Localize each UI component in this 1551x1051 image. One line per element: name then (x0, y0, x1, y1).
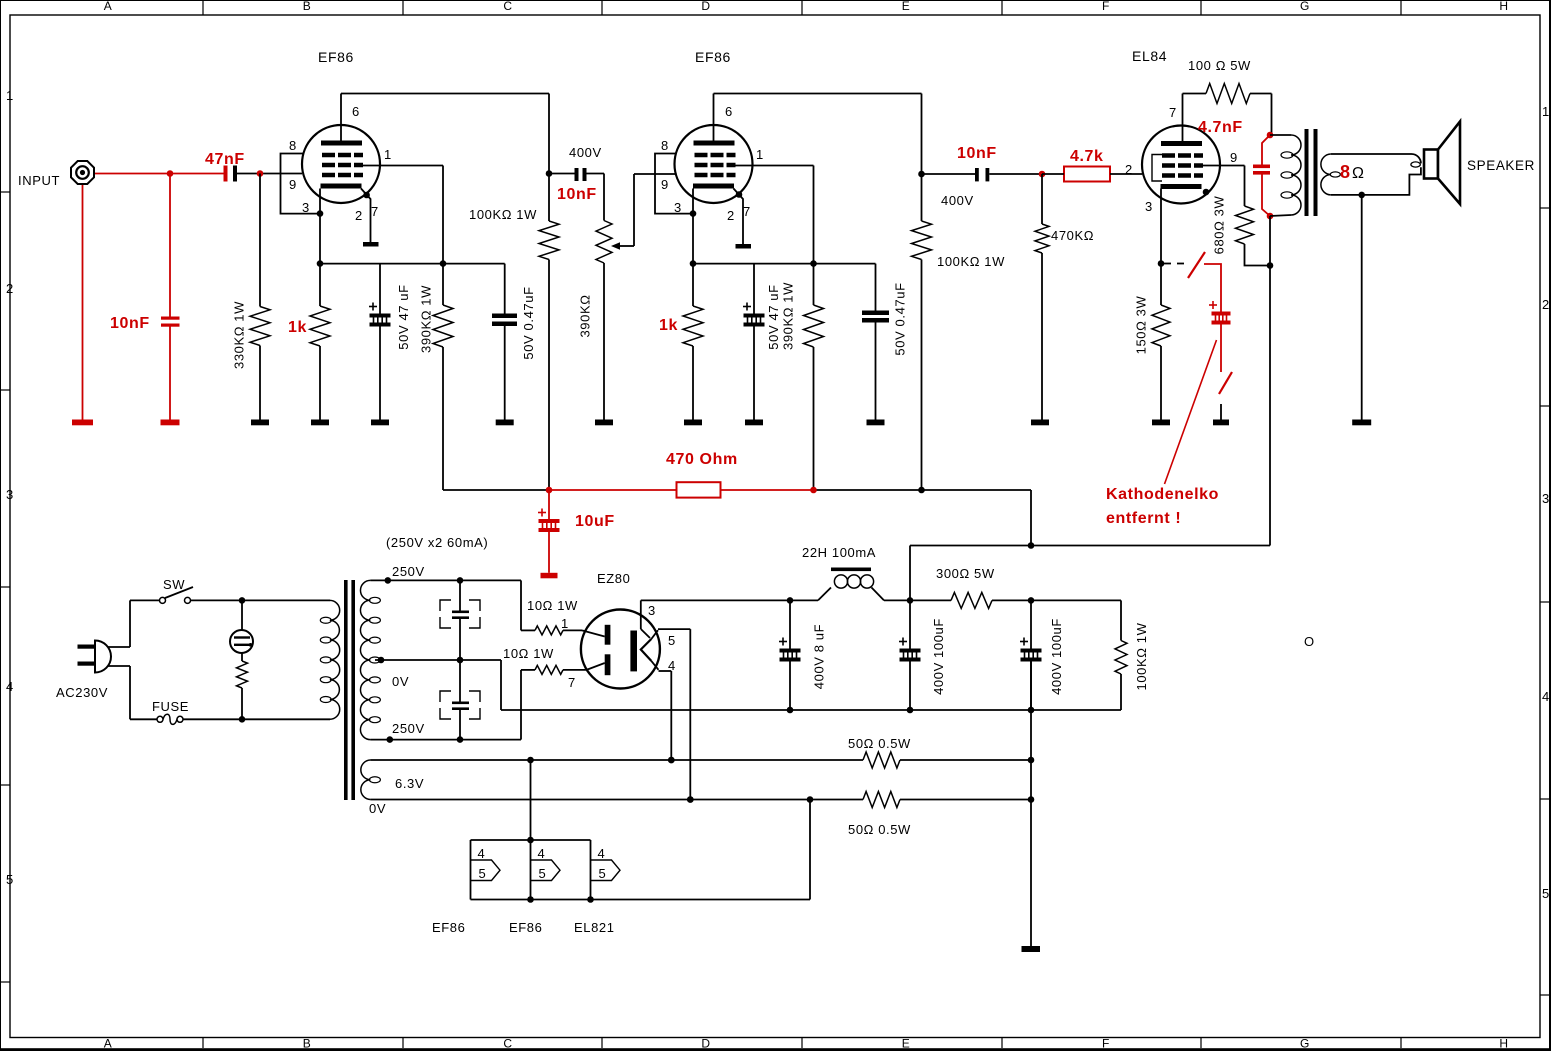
svg-text:E: E (902, 0, 911, 13)
svg-text:(250V x2 60mA): (250V x2 60mA) (386, 535, 488, 550)
svg-text:G: G (1300, 0, 1310, 13)
svg-text:100KΩ 1W: 100KΩ 1W (1134, 622, 1149, 690)
svg-text:22H 100mA: 22H 100mA (802, 545, 876, 560)
svg-text:A: A (104, 0, 113, 13)
svg-text:250V: 250V (392, 564, 425, 579)
svg-text:400V 100uF: 400V 100uF (931, 618, 946, 695)
svg-text:5: 5 (599, 866, 607, 881)
svg-text:H: H (1499, 0, 1508, 13)
svg-text:5: 5 (668, 633, 676, 648)
svg-text:250V: 250V (392, 721, 425, 736)
svg-text:10nF: 10nF (557, 186, 597, 203)
svg-text:7: 7 (371, 204, 379, 219)
svg-text:7: 7 (743, 204, 751, 219)
svg-text:7: 7 (1169, 105, 1177, 120)
svg-text:150Ω 3W: 150Ω 3W (1134, 296, 1149, 355)
svg-text:B: B (303, 1037, 312, 1051)
svg-text:3: 3 (648, 603, 656, 618)
svg-text:G: G (1300, 1037, 1310, 1051)
svg-text:1: 1 (561, 616, 569, 631)
svg-text:EL821: EL821 (574, 920, 615, 935)
svg-text:680Ω 3W: 680Ω 3W (1212, 196, 1227, 255)
svg-text:9: 9 (1230, 150, 1238, 165)
svg-text:3: 3 (1145, 199, 1153, 214)
svg-text:F: F (1102, 1037, 1110, 1051)
svg-text:SW: SW (163, 577, 185, 592)
svg-text:400V 8 uF: 400V 8 uF (812, 624, 827, 689)
svg-text:INPUT: INPUT (18, 173, 60, 188)
svg-text:Ω: Ω (1352, 165, 1365, 182)
svg-text:2: 2 (355, 208, 363, 223)
svg-text:100KΩ 1W: 100KΩ 1W (937, 254, 1005, 269)
svg-text:C: C (503, 1037, 512, 1051)
svg-text:8: 8 (661, 138, 669, 153)
svg-text:AC230V: AC230V (56, 685, 108, 700)
svg-text:50V 0.47uF: 50V 0.47uF (893, 282, 908, 355)
svg-text:2: 2 (1125, 162, 1133, 177)
svg-text:F: F (1102, 0, 1110, 13)
svg-text:7: 7 (568, 675, 576, 690)
svg-text:D: D (701, 0, 710, 13)
svg-text:50Ω 0.5W: 50Ω 0.5W (848, 736, 911, 751)
svg-text:2: 2 (727, 208, 735, 223)
svg-text:Kathodenelko: Kathodenelko (1106, 486, 1219, 503)
svg-text:390KΩ: 390KΩ (578, 294, 593, 337)
svg-text:47nF: 47nF (205, 151, 245, 168)
svg-text:6: 6 (725, 104, 733, 119)
svg-text:B: B (303, 0, 312, 13)
svg-text:EF86: EF86 (318, 49, 354, 65)
svg-text:3: 3 (6, 487, 14, 502)
svg-text:EL84: EL84 (1132, 48, 1167, 64)
svg-text:5: 5 (6, 872, 14, 887)
svg-text:10nF: 10nF (957, 145, 997, 162)
svg-text:10Ω 1W: 10Ω 1W (503, 646, 554, 661)
svg-text:1: 1 (1542, 104, 1550, 119)
svg-text:SPEAKER: SPEAKER (1467, 158, 1535, 173)
svg-text:10uF: 10uF (575, 513, 615, 530)
svg-text:1: 1 (6, 88, 14, 103)
svg-text:H: H (1499, 1037, 1508, 1051)
svg-text:8: 8 (1340, 162, 1351, 182)
svg-text:10nF: 10nF (110, 315, 150, 332)
svg-text:1k: 1k (659, 317, 678, 334)
svg-text:FUSE: FUSE (152, 699, 189, 714)
svg-text:8: 8 (289, 138, 297, 153)
svg-text:EF86: EF86 (695, 49, 731, 65)
svg-text:400V: 400V (941, 193, 974, 208)
svg-text:1k: 1k (288, 319, 307, 336)
svg-text:4: 4 (668, 658, 676, 673)
svg-text:400V: 400V (569, 145, 602, 160)
svg-text:4: 4 (6, 679, 14, 694)
svg-text:4: 4 (1542, 689, 1550, 704)
svg-text:2: 2 (6, 281, 14, 296)
svg-text:50V 0.47uF: 50V 0.47uF (521, 286, 536, 359)
svg-text:390KΩ 1W: 390KΩ 1W (781, 282, 796, 350)
svg-text:A: A (104, 1037, 113, 1051)
svg-text:300Ω 5W: 300Ω 5W (936, 566, 995, 581)
svg-text:3: 3 (1542, 491, 1550, 506)
svg-text:4: 4 (478, 846, 486, 861)
svg-text:4: 4 (598, 846, 606, 861)
svg-text:470KΩ: 470KΩ (1051, 228, 1094, 243)
svg-text:400V 100uF: 400V 100uF (1049, 618, 1064, 695)
svg-text:EZ80: EZ80 (597, 571, 630, 586)
svg-text:4.7k: 4.7k (1070, 148, 1104, 165)
svg-text:1: 1 (756, 147, 764, 162)
svg-text:5: 5 (539, 866, 547, 881)
svg-text:5: 5 (479, 866, 487, 881)
svg-text:330KΩ 1W: 330KΩ 1W (232, 301, 247, 369)
svg-text:9: 9 (661, 177, 669, 192)
svg-text:50V 47 uF: 50V 47 uF (396, 284, 411, 349)
svg-text:0V: 0V (392, 674, 409, 689)
svg-text:100KΩ 1W: 100KΩ 1W (469, 207, 537, 222)
svg-text:10Ω 1W: 10Ω 1W (527, 598, 578, 613)
svg-text:390KΩ 1W: 390KΩ 1W (419, 285, 434, 353)
svg-text:EF86: EF86 (432, 920, 465, 935)
svg-text:D: D (701, 1037, 710, 1051)
svg-text:0V: 0V (369, 801, 386, 816)
svg-text:9: 9 (289, 177, 297, 192)
svg-text:C: C (503, 0, 512, 13)
svg-text:470 Ohm: 470 Ohm (666, 451, 738, 468)
svg-text:E: E (902, 1037, 911, 1051)
svg-text:1: 1 (384, 147, 392, 162)
svg-text:100 Ω 5W: 100 Ω 5W (1188, 58, 1251, 73)
svg-text:6.3V: 6.3V (395, 776, 424, 791)
svg-text:4: 4 (538, 846, 546, 861)
svg-text:EF86: EF86 (509, 920, 542, 935)
svg-text:50Ω 0.5W: 50Ω 0.5W (848, 822, 911, 837)
svg-text:O: O (1304, 634, 1315, 649)
svg-text:6: 6 (352, 104, 360, 119)
svg-text:50V 47 uF: 50V 47 uF (766, 284, 781, 349)
svg-text:4.7nF: 4.7nF (1198, 119, 1243, 136)
svg-text:5: 5 (1542, 886, 1550, 901)
svg-text:2: 2 (1542, 297, 1550, 312)
svg-text:entfernt !: entfernt ! (1106, 510, 1181, 527)
